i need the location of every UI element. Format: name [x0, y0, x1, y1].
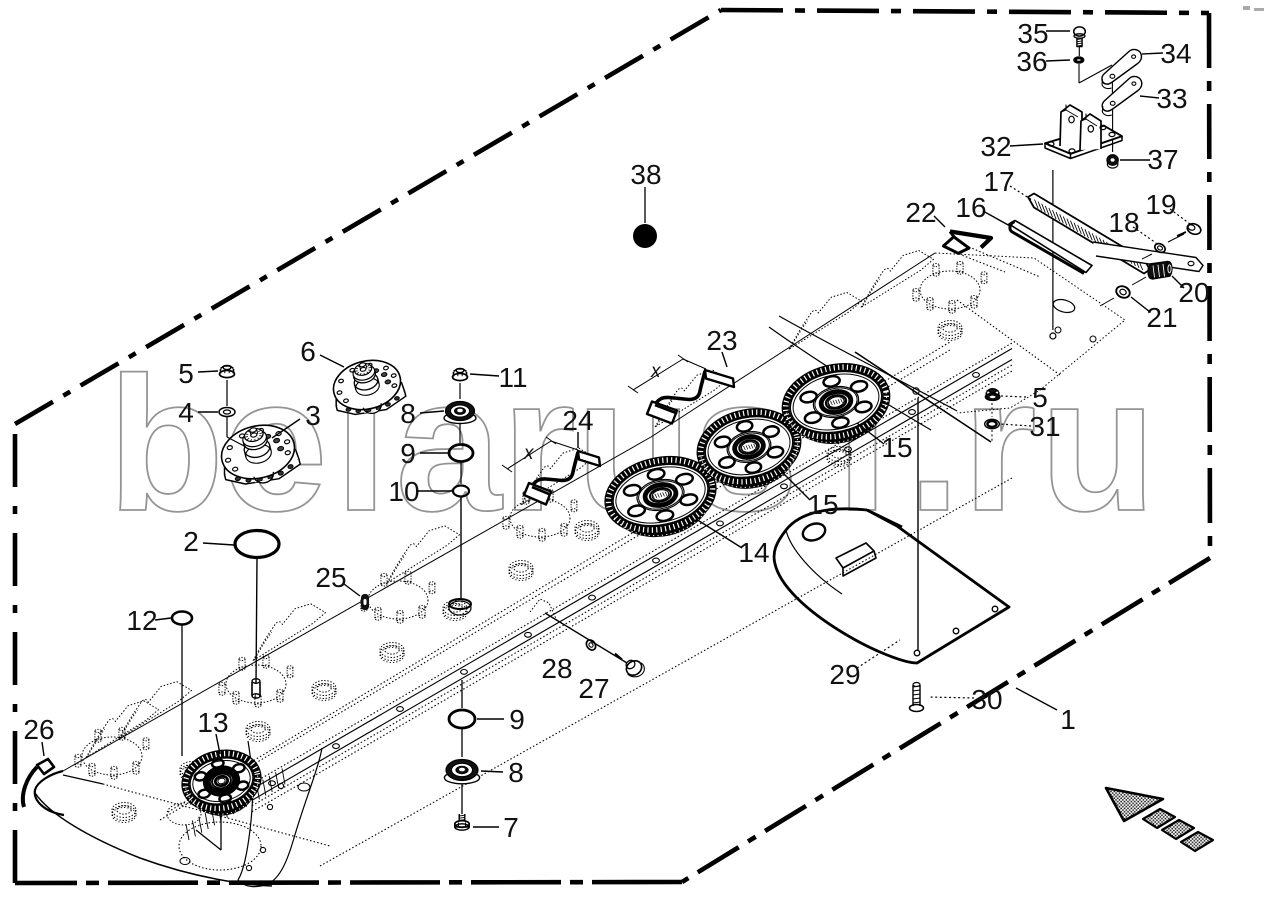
svg-text:20: 20 [1178, 277, 1209, 308]
svg-text:5: 5 [178, 358, 194, 389]
svg-text:6: 6 [300, 336, 316, 367]
dotted 5-31 line [991, 403, 993, 417]
bar lower dotted edge [320, 478, 1012, 866]
pin 25 [361, 594, 369, 610]
grommet below 10 [449, 601, 471, 615]
guide bar right of 17 [1093, 242, 1203, 272]
washer 4 [219, 408, 235, 417]
svg-text:16: 16 [955, 192, 986, 223]
svg-text:x: x [650, 361, 662, 382]
bolt 27 [624, 658, 645, 678]
leader 27 28 [545, 613, 627, 663]
svg-text:1: 1 [1060, 704, 1076, 735]
svg-text:8: 8 [400, 398, 416, 429]
svg-text:36: 36 [1016, 46, 1047, 77]
nut 5 right [986, 394, 1000, 401]
leader bracket to bar [1052, 170, 1054, 330]
bearing 8 lower [444, 772, 479, 784]
skid plate 29 [774, 509, 1009, 663]
knife bar 16 [1009, 221, 1092, 273]
o-ring 2 [235, 531, 279, 558]
svg-text:35: 35 [1017, 18, 1048, 49]
gear 13 v-line [220, 808, 222, 850]
nut 11 [453, 373, 468, 380]
knife back band [252, 343, 1012, 784]
washer 31 [985, 419, 1000, 428]
svg-text:31: 31 [1029, 411, 1060, 442]
bar mid dotted lines [160, 350, 950, 820]
svg-text:.: . [907, 338, 960, 551]
arm holes [278, 783, 283, 788]
line 5-4-hub3 [226, 380, 228, 406]
gear 13 [180, 747, 264, 822]
sprocket crank rings [82, 737, 142, 775]
clip 23 wire [651, 371, 705, 408]
svg-text:13: 13 [197, 707, 228, 738]
svg-text:28: 28 [541, 653, 572, 684]
svg-text:x: x [523, 443, 535, 464]
washer 36 [1074, 57, 1084, 63]
svg-text:7: 7 [503, 812, 519, 843]
end swoosh curves [779, 316, 957, 411]
bracket 32 base [1045, 126, 1122, 154]
svg-text:2: 2 [183, 526, 199, 557]
skid plate tab [836, 543, 874, 568]
line bar to 9 lower [461, 680, 463, 708]
axis 20-21 [1132, 277, 1146, 285]
clip 23 lower foot [647, 402, 677, 424]
svg-text:27: 27 [578, 673, 609, 704]
ring 9 lower [449, 710, 475, 728]
x bracket 23 [633, 359, 683, 390]
end plate details [1052, 297, 1076, 314]
svg-text:5: 5 [1032, 382, 1048, 413]
washer 18 [1153, 242, 1167, 254]
svg-text:9: 9 [509, 704, 525, 735]
bracket holes [1048, 142, 1054, 146]
tab on bar at 27 [530, 599, 557, 621]
clip 23 upper foot [705, 370, 734, 387]
bearing 8 upper [444, 413, 476, 424]
ring 9 upper [449, 445, 473, 462]
assembly line 35-37 [1078, 47, 1080, 56]
axis 19-18 [1168, 234, 1184, 242]
svg-text:14: 14 [738, 537, 769, 568]
svg-text:21: 21 [1146, 302, 1177, 333]
gear 15 top [779, 358, 894, 453]
svg-text:32: 32 [980, 131, 1011, 162]
svg-text:11: 11 [498, 362, 527, 393]
svg-text:34: 34 [1160, 38, 1191, 69]
clip 26 [23, 767, 37, 807]
plug 20 [1150, 262, 1170, 280]
shoe sole bottom [35, 793, 272, 886]
part 38 dot [633, 224, 657, 248]
svg-text:15: 15 [807, 489, 838, 520]
clip 24 lower foot [524, 483, 551, 505]
gear 14 [602, 451, 721, 546]
leader from bar fork [855, 352, 991, 442]
right end plate [935, 253, 1125, 413]
band hatch near gear13 [186, 768, 285, 840]
svg-text:38: 38 [630, 159, 661, 190]
svg-text:37: 37 [1147, 144, 1178, 175]
bolt 7 [459, 814, 465, 823]
svg-text:33: 33 [1156, 83, 1187, 114]
svg-text:24: 24 [562, 405, 593, 436]
svg-text:25: 25 [315, 562, 346, 593]
skid plate hole [800, 521, 827, 544]
svg-text:u: u [1040, 338, 1157, 551]
svg-text:10: 10 [388, 476, 419, 507]
knife back rivets [269, 781, 276, 786]
clip 24 upper foot [578, 451, 600, 466]
svg-text:15: 15 [881, 432, 912, 463]
bolt 35 [1074, 27, 1086, 36]
clip 24 wire [528, 452, 578, 490]
nut 37 [1107, 155, 1118, 165]
svg-text:26: 26 [23, 714, 54, 745]
svg-text:18: 18 [1108, 207, 1139, 238]
svg-text:30: 30 [971, 684, 1002, 715]
gear 15 middle [694, 404, 805, 498]
left shoe tip [35, 771, 64, 815]
clip 22 arrow [950, 232, 991, 248]
washer 21 [1114, 284, 1131, 300]
tiny corner text [1243, 6, 1250, 10]
svg-text:b: b [108, 338, 225, 551]
screw 30 [913, 685, 920, 706]
svg-text:4: 4 [178, 397, 194, 428]
dash-dot border frame [13, 424, 18, 883]
svg-text:29: 29 [829, 659, 860, 690]
washer 28 [584, 638, 597, 652]
svg-text:12: 12 [126, 605, 157, 636]
sole opening dotted ellipse [179, 822, 261, 870]
skid plate holes [914, 650, 920, 656]
bolt 19 [1186, 222, 1203, 236]
hub 6 [327, 353, 408, 421]
link plate 34 [1102, 49, 1142, 84]
o-ring 12 [172, 612, 192, 625]
hub 3 [215, 418, 303, 492]
nut 5 left [220, 370, 235, 377]
bar far edge [63, 253, 935, 771]
ring 10 [453, 486, 469, 497]
svg-text:8: 8 [508, 757, 524, 788]
x bracket 24 [507, 441, 551, 469]
shoe sole top edge [103, 784, 330, 846]
svg-text:23: 23 [706, 325, 737, 356]
svg-text:9: 9 [400, 438, 416, 469]
shoe arm [238, 741, 253, 880]
link plate 33 [1102, 76, 1142, 111]
serration clusters [86, 701, 159, 758]
watermark belarus...ru [108, 338, 1157, 551]
svg-text:22: 22 [905, 197, 936, 228]
svg-text:3: 3 [305, 400, 321, 431]
guide hole grommets [112, 803, 136, 818]
svg-text:19: 19 [1145, 189, 1176, 220]
svg-text:r: r [962, 338, 1036, 551]
bracket 32 lugs [1060, 105, 1082, 146]
svg-text:17: 17 [983, 166, 1014, 197]
pin at end of 2 line [252, 682, 260, 696]
wear plate 17 [1028, 194, 1150, 274]
